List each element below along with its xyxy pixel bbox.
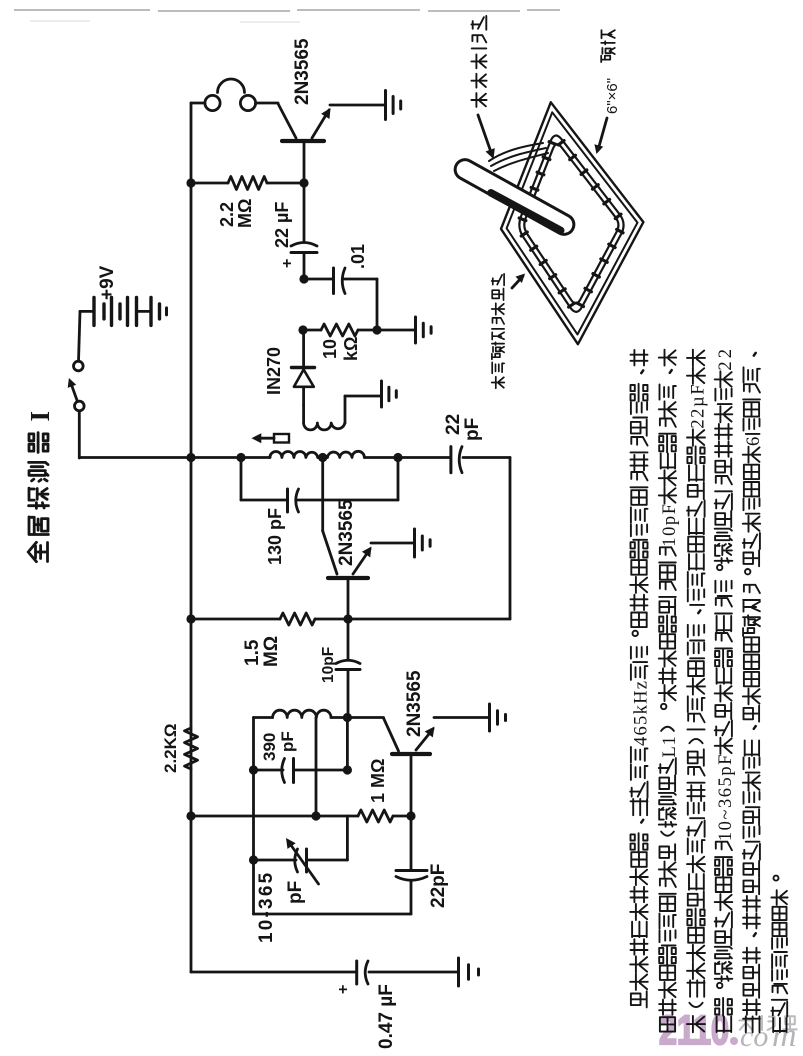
svg-text:1.5: 1.5 <box>242 639 263 666</box>
svg-text:2.2: 2.2 <box>217 202 237 227</box>
svg-text:10pF: 10pF <box>660 504 680 547</box>
svg-text:2.2KΩ: 2.2KΩ <box>161 723 180 773</box>
svg-text:2N3565: 2N3565 <box>292 38 313 105</box>
svg-text:130 pF: 130 pF <box>265 508 285 565</box>
svg-text:IN270: IN270 <box>264 347 284 395</box>
svg-text:pF: pF <box>285 881 306 904</box>
svg-text:2N3565: 2N3565 <box>404 670 425 737</box>
svg-text:390: 390 <box>260 733 279 761</box>
svg-text:.01: .01 <box>348 244 368 269</box>
svg-text:6: 6 <box>744 437 764 446</box>
svg-text:22 µF: 22 µF <box>272 202 292 248</box>
svg-text:I: I <box>25 411 55 422</box>
svg-text:2N3565: 2N3565 <box>336 499 357 566</box>
svg-text:0.47 µF: 0.47 µF <box>376 984 397 1049</box>
svg-text:10: 10 <box>320 339 340 359</box>
svg-text:+: + <box>279 259 296 268</box>
svg-text:10-365: 10-365 <box>256 871 277 943</box>
svg-text:10pF: 10pF <box>320 647 337 683</box>
svg-text:6"×6": 6"×6" <box>604 78 621 114</box>
svg-text:22µF: 22µF <box>689 385 709 429</box>
svg-text:pF: pF <box>462 418 483 441</box>
svg-text:pF: pF <box>278 731 297 752</box>
svg-text:465kHz: 465kHz <box>632 681 652 746</box>
svg-text:kΩ: kΩ <box>341 337 361 361</box>
svg-text:L1: L1 <box>660 736 680 757</box>
svg-text:22: 22 <box>443 414 464 435</box>
svg-text:22pF: 22pF <box>428 864 449 908</box>
svg-text:MΩ: MΩ <box>261 636 282 667</box>
svg-text:10~365pF: 10~365pF <box>716 755 736 842</box>
svg-text:+: + <box>335 985 352 994</box>
svg-text:MΩ: MΩ <box>235 199 255 228</box>
svg-text:1 MΩ: 1 MΩ <box>368 759 388 803</box>
svg-text:+9V: +9V <box>97 265 118 300</box>
